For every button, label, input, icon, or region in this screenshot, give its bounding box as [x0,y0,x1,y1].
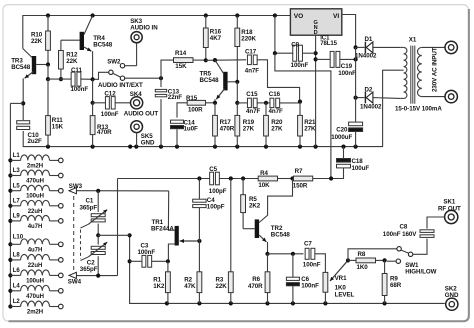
svg-text:4u7H: 4u7H [28,247,42,253]
inductor L10 [10,234,63,253]
svg-text:R7: R7 [295,168,303,175]
wire oscillator rail [118,176,334,180]
resistor R10 [31,16,50,65]
switch SW3 [69,183,169,194]
svg-text:C16: C16 [269,91,281,98]
svg-text:2m2H: 2m2H [27,163,43,169]
capacitor C17 [245,49,300,102]
resistor R16 [203,16,221,63]
wire IC1 VI [342,15,358,50]
svg-text:100nF: 100nF [101,111,119,118]
resistor R15 [177,95,215,118]
svg-text:22uH: 22uH [28,209,42,215]
svg-text:100pF: 100pF [209,188,227,195]
svg-text:2u2F: 2u2F [28,138,43,145]
svg-text:AUDIO OUT: AUDIO OUT [124,111,159,118]
svg-text:27K: 27K [304,126,316,133]
svg-text:C17: C17 [245,49,257,56]
capacitor C20 [331,98,362,147]
socket SK1 RF OUT [438,198,461,223]
resistor R5 [241,179,261,229]
diode D1 [355,36,400,59]
wire inductor bus [8,103,12,308]
svg-text:GND: GND [141,139,155,146]
svg-text:2m2H: 2m2H [27,310,43,316]
inductor L5 [10,183,63,199]
node TR4 emitter / C12 [91,77,95,105]
svg-text:4u7H: 4u7H [28,224,42,230]
resistor R20 [264,103,283,147]
svg-text:470R: 470R [248,283,263,290]
resistor R12 [59,40,79,81]
node TR5 base [235,80,239,105]
svg-text:365pF: 365pF [80,204,98,211]
inductor L8 [10,253,63,269]
svg-text:4K7: 4K7 [210,35,222,42]
svg-text:1N4002: 1N4002 [355,53,377,60]
svg-text:470R: 470R [97,129,112,136]
svg-text:L10: L10 [13,234,24,240]
svg-text:C7: C7 [304,240,312,247]
transistor TR2 [243,179,292,254]
resistor R7 [293,168,313,189]
capacitor C16 [264,91,300,115]
resistor R4 [258,170,277,189]
svg-text:SK1: SK1 [443,198,455,205]
capacitor C4 [193,179,225,242]
capacitor C1 variable [80,189,108,236]
svg-text:R4: R4 [260,170,268,177]
node AC input label [432,47,439,92]
resistor R21 [298,100,316,147]
svg-text:C20: C20 [336,127,348,134]
switch SW1 [348,247,437,276]
svg-text:10K: 10K [258,182,270,189]
svg-text:4n7F: 4n7F [269,108,284,115]
capacitor C11 [48,67,93,93]
svg-text:L4: L4 [13,283,21,289]
svg-text:L7: L7 [13,198,21,204]
svg-text:100uF: 100uF [352,165,370,172]
svg-text:22K: 22K [66,58,78,65]
inductor L7 [10,198,63,214]
svg-text:15-0-15V 100mA: 15-0-15V 100mA [395,105,442,112]
svg-text:L5: L5 [13,183,21,189]
svg-text:R14: R14 [175,50,187,57]
resistor R19 [235,103,255,147]
socket SK5 GND [131,121,155,147]
inductor L4 [10,283,63,299]
svg-text:22nF: 22nF [168,94,183,101]
wire emitter node [268,252,304,256]
node audio [159,76,163,80]
svg-text:L3: L3 [13,168,21,174]
resistor R6 [248,254,270,304]
wire bottom ground rail [128,233,445,305]
svg-text:L6: L6 [13,268,21,274]
svg-text:100nF: 100nF [301,282,319,289]
svg-text:1N4002: 1N4002 [360,104,382,111]
socket SK4 AUDIO OUT [124,91,159,118]
switch SW2 [93,43,161,89]
svg-text:BC548: BC548 [200,77,220,84]
svg-text:C18: C18 [352,158,364,165]
capacitor C8 [383,217,445,254]
svg-text:AUDIO INT/EXT: AUDIO INT/EXT [98,82,143,89]
svg-text:C15: C15 [246,91,258,98]
resistor R8 [348,251,387,271]
svg-text:22uH: 22uH [28,263,42,269]
transistor TR1 [151,219,201,261]
svg-text:R8: R8 [358,251,366,258]
transistor TR4 [61,16,113,79]
node TR3 base [46,62,50,81]
capacitor C9 [273,16,316,70]
svg-text:4n7F: 4n7F [245,68,260,75]
capacitor C3 [130,242,170,267]
capacitor C10 [17,103,42,145]
transformer X1 [395,36,445,112]
socket AC neutral [445,90,457,102]
svg-text:100nF: 100nF [138,249,156,256]
socket SK3 AUDIO IN [130,18,158,43]
svg-text:R15: R15 [186,95,198,102]
resistor R9 [382,260,402,303]
capacitor C6 [286,254,319,304]
resistor R14 [161,50,206,78]
capacitor C18 [331,147,369,179]
node TR5 emitter [213,101,217,116]
svg-text:BC548: BC548 [271,231,291,238]
svg-text:SW4: SW4 [68,279,82,286]
svg-text:C5: C5 [209,166,217,173]
capacitor C7 [303,240,326,272]
resistor R18 [235,16,257,82]
svg-text:150R: 150R [293,183,308,190]
node R8 left [346,258,350,262]
svg-text:15K: 15K [52,123,64,130]
wire regulated supply feed [275,53,331,178]
inductor L1 [10,153,63,169]
svg-text:LEVEL: LEVEL [335,291,355,298]
resistor R17 [213,115,235,146]
svg-text:1K0: 1K0 [357,264,369,271]
svg-text:47K: 47K [184,283,196,290]
capacitor C19 [316,51,358,76]
svg-text:SW3: SW3 [69,183,83,190]
resistor R3 [216,179,234,304]
wire +15V top rail [23,13,291,48]
resistor R2 [184,241,202,303]
svg-text:470uH: 470uH [26,179,44,185]
wire gate line [168,191,174,230]
svg-text:100nF: 100nF [338,70,356,77]
resistor R13 [90,103,112,147]
capacitor C13 [155,78,182,146]
switch SW4 [68,272,118,285]
inductor L3 [10,168,63,184]
svg-text:15K: 15K [175,63,187,70]
diode D2 [354,47,401,110]
svg-text:BF244A: BF244A [151,225,174,232]
inductor L2 [10,299,63,315]
wire SW4 riser [117,179,119,276]
svg-text:100uH: 100uH [26,194,44,200]
socket SK2 GND [445,285,459,310]
transistor TR5 [200,60,238,103]
svg-text:100pF: 100pF [207,203,225,210]
svg-text:2K2: 2K2 [249,202,261,209]
svg-text:D1: D1 [365,36,373,43]
potentiometer VR1 [323,260,355,303]
op-amp U1 IC1 78L15 box [290,9,341,47]
svg-text:SK4: SK4 [130,91,142,98]
svg-text:C12: C12 [104,91,116,98]
transistor TR3 [11,49,48,104]
svg-text:100uH: 100uH [26,278,44,284]
svg-text:1000uF: 1000uF [331,134,352,141]
svg-text:100nF: 100nF [303,262,321,269]
svg-text:470uH: 470uH [26,294,44,300]
svg-text:100nF 160V: 100nF 160V [383,231,417,238]
capacitor C5 [209,166,227,195]
svg-text:230V AC INPUT: 230V AC INPUT [432,47,439,92]
svg-text:L1: L1 [13,153,21,159]
resistor R1 [153,261,170,303]
svg-text:470R: 470R [220,126,235,133]
wire C1-C2 junction [96,233,130,237]
wire IC1 GND pin [314,35,318,146]
svg-text:X1: X1 [409,36,417,43]
svg-text:C11: C11 [71,67,82,74]
resistor R11 [46,79,64,147]
svg-text:C9: C9 [291,42,299,49]
svg-text:BC548: BC548 [93,41,113,48]
wire gang link SW3-SW4 [73,196,75,270]
svg-text:22K: 22K [216,283,228,290]
socket AC live [445,41,457,53]
svg-text:22K: 22K [31,38,43,45]
svg-text:SW2: SW2 [107,58,121,65]
svg-text:GND: GND [445,292,459,299]
svg-text:27K: 27K [271,126,283,133]
svg-text:VO: VO [294,13,303,20]
capacitor C15 [237,91,266,115]
svg-text:D2: D2 [365,86,373,93]
svg-text:VI: VI [333,13,339,20]
svg-text:78L15: 78L15 [320,41,337,47]
svg-text:HIGH/LOW: HIGH/LOW [405,268,436,275]
wire ground rail [23,70,400,149]
svg-text:RF OUT: RF OUT [438,205,461,212]
svg-text:1u0F: 1u0F [184,126,199,133]
capacitor C14 [171,119,199,146]
svg-text:L8: L8 [13,253,21,259]
node TR3 emitter [10,101,25,105]
svg-text:L2: L2 [13,299,21,305]
svg-text:100nF: 100nF [71,86,89,93]
svg-text:VR1: VR1 [335,275,347,282]
svg-text:220K: 220K [241,35,256,42]
svg-text:100nF: 100nF [291,62,309,69]
svg-text:68R: 68R [390,282,402,289]
svg-text:100R: 100R [188,106,203,113]
svg-text:L9: L9 [13,214,21,220]
svg-text:AUDIO IN: AUDIO IN [130,24,158,31]
svg-text:BC548: BC548 [11,64,31,71]
svg-text:365pF: 365pF [80,266,98,273]
wire TR5 collector node [206,58,246,62]
svg-text:C8: C8 [400,223,408,230]
svg-text:27K: 27K [243,126,255,133]
inductor L9 [10,214,63,230]
capacitor C12 [93,91,131,118]
svg-text:4n7F: 4n7F [246,108,261,115]
capacitor C2 variable [80,230,107,278]
inductor L6 [10,268,63,284]
node TR2 emitter [265,252,269,256]
svg-text:1K2: 1K2 [153,283,165,290]
